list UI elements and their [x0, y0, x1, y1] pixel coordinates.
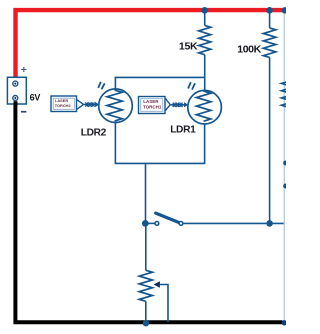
wire: top loop wire (LDR2 top to LDR1 top) [115, 77, 204, 89]
svg-text:15K: 15K [179, 41, 198, 53]
potentiometer wiper arm [154, 281, 168, 322]
label: battery - terminal [21, 111, 26, 113]
svg-text:LASER: LASER [143, 99, 159, 104]
LDR1 (light dependent resistor) [188, 82, 222, 124]
junction: cut edge node B [283, 184, 288, 189]
laser torch module 2 (aims at LDR2) [51, 96, 77, 112]
laser beam from torch 2 into LDR2 [77, 100, 99, 110]
wire: 15K bottom to LDR1 top [204, 55, 206, 91]
wire: bottom loop wire (LDR2 bottom to LDR1 bottom) [115, 122, 204, 163]
wire: +6V red supply bus [16, 10, 287, 77]
resistor (cut off at right edge) [282, 78, 295, 107]
junction: 100K top on +6V bus [266, 7, 273, 14]
potentiometer VR1 [139, 270, 152, 322]
junction: cut edge node A [283, 161, 288, 166]
battery BATT 6V [7, 77, 26, 104]
switch S1 (open SPST) [145, 213, 183, 225]
junction: 100K bottom on switch output wire [266, 220, 273, 227]
wire: switch output to right (past 100K node) [183, 222, 285, 224]
wire: switch node down to potentiometer [145, 223, 147, 270]
svg-text:6V: 6V [30, 92, 41, 102]
wire: loop bottom centre drop to switch [145, 163, 147, 223]
svg-text:+: + [21, 64, 27, 76]
laser torch module 1 (aims at LDR1) [139, 97, 166, 114]
junction: potentiometer bottom on ground rail [143, 320, 149, 326]
LDR2 (light dependent resistor) [98, 82, 132, 123]
resistor 100K [263, 10, 275, 57]
svg-text:100K: 100K [237, 43, 261, 55]
junction: 15K top on +6V bus [201, 7, 208, 14]
svg-text:LDR1: LDR1 [170, 125, 196, 136]
svg-text:LDR2: LDR2 [81, 127, 107, 138]
laser beam from torch 1 into LDR1 [165, 98, 188, 110]
svg-text:TORCH2: TORCH2 [55, 103, 72, 108]
wire: negative black return (battery - to ground rail) [15, 101, 282, 323]
junction: switch pole node (loop drop / pot top) [142, 220, 149, 227]
svg-text:TORCH1: TORCH1 [143, 105, 162, 110]
wire: battery negative stub over box edge [14, 101, 18, 106]
resistor 15K [199, 10, 211, 54]
wire: cut-off vertical wire at right edge [283, 12, 285, 321]
junction: ground rail end node (cut) [282, 320, 287, 325]
junction: red bus end node (cut) [282, 7, 288, 13]
wire: 100K bottom down to switch output node [269, 57, 271, 223]
